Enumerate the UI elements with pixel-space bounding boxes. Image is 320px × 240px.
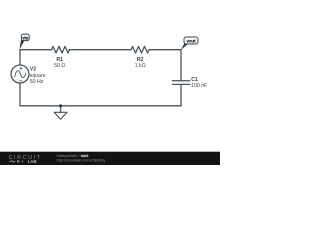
capacitor C1 bottom plate xyxy=(172,83,189,85)
V2 plus mark xyxy=(20,67,22,69)
resistor R2 xyxy=(131,46,149,53)
wire left vertical upper xyxy=(19,50,21,65)
capacitor C1 top plate xyxy=(172,80,189,82)
wire R1 to R2 xyxy=(70,49,132,51)
svg-text:LAB: LAB xyxy=(28,159,37,164)
svg-text:50 Ω: 50 Ω xyxy=(54,63,65,69)
wire R2 to top-right corner xyxy=(149,49,181,51)
node flag vin xyxy=(20,34,30,50)
svg-text:CIRCUIT: CIRCUIT xyxy=(9,155,42,161)
svg-text:vout: vout xyxy=(186,39,196,44)
svg-text:Martyimbalh / lab8: Martyimbalh / lab8 xyxy=(57,154,90,158)
node flag vout xyxy=(181,37,198,50)
V2 minus mark xyxy=(19,80,22,82)
svg-text:V2: V2 xyxy=(30,67,36,73)
wire bottom xyxy=(20,105,181,107)
wire left vertical lower xyxy=(19,83,21,106)
svg-text:50 Hz: 50 Hz xyxy=(30,79,44,85)
svg-text:100 nF: 100 nF xyxy=(191,83,207,89)
wire top-left to R1 xyxy=(20,49,52,51)
wire right vertical lower xyxy=(180,85,182,106)
svg-text:http://circuitlab.com/c5835dy: http://circuitlab.com/c5835dy xyxy=(57,158,106,162)
voltage source V2 circle xyxy=(11,65,29,83)
svg-text:square: square xyxy=(30,73,46,79)
ground stub xyxy=(60,106,62,112)
ground triangle xyxy=(54,112,67,119)
resistor R1 xyxy=(52,46,70,53)
svg-text:1 kΩ: 1 kΩ xyxy=(135,63,146,69)
junction node dot xyxy=(59,104,62,107)
footer watermark bar xyxy=(0,152,220,165)
V2 waveform glyph xyxy=(15,71,26,78)
wire right vertical upper xyxy=(180,50,182,80)
CircuitLab logo row 2 glyphs xyxy=(9,160,23,163)
svg-text:vin: vin xyxy=(22,35,28,40)
